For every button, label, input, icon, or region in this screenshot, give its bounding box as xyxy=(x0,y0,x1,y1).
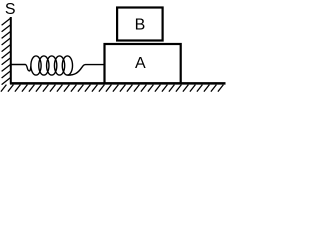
svg-text:B: B xyxy=(135,17,146,34)
block B xyxy=(117,8,163,41)
spring coil (5 loops) xyxy=(31,56,73,75)
ground hatching xyxy=(1,85,224,92)
block A xyxy=(105,44,181,83)
svg-text:A: A xyxy=(135,55,146,72)
spring right lead wire xyxy=(67,65,104,76)
ground xyxy=(10,82,226,85)
wall hatching xyxy=(2,18,11,85)
svg-text:S: S xyxy=(5,1,16,18)
spring left lead wire xyxy=(11,65,31,71)
wall xyxy=(10,17,12,84)
